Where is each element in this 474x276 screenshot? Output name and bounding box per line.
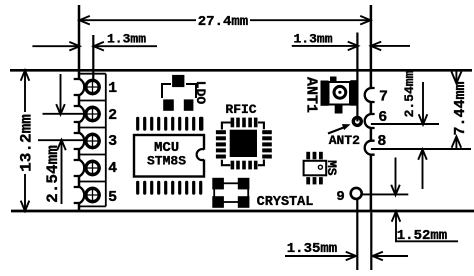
bottom extension line board edge bbox=[370, 213, 372, 271]
dimension 7.44mm reversed arrows bbox=[451, 70, 461, 149]
1.35mm arrows bbox=[285, 252, 408, 261]
pin6 extension line bbox=[371, 123, 439, 125]
crystal pad bottom-left bbox=[212, 196, 224, 208]
svg-text:ANT2: ANT2 bbox=[329, 133, 360, 148]
svg-text:2.54mm: 2.54mm bbox=[44, 145, 62, 203]
svg-text:ANT1: ANT1 bbox=[303, 77, 320, 113]
left 1.3mm extension line bbox=[92, 35, 94, 80]
ANT1 connector bottom pad bbox=[335, 105, 343, 114]
MS top pins bbox=[306, 152, 323, 160]
RFIC bottom pins bbox=[231, 161, 258, 170]
1.52mm down arrow bbox=[391, 158, 400, 196]
pin 1 hole bbox=[84, 79, 101, 96]
castellation pin 2 bbox=[74, 106, 85, 122]
MS bottom pins bbox=[306, 177, 323, 184]
castellation pin 6 bbox=[365, 114, 375, 128]
castellation pin 7 bbox=[365, 88, 375, 102]
svg-text:9: 9 bbox=[336, 189, 344, 205]
RFIC top pins bbox=[231, 118, 258, 128]
svg-text:7.44mm: 7.44mm bbox=[452, 81, 469, 135]
pin 2 hole bbox=[84, 106, 101, 123]
castellation pin 4 bbox=[74, 160, 85, 176]
svg-text:3: 3 bbox=[108, 133, 117, 150]
svg-text:1.3mm: 1.3mm bbox=[107, 32, 146, 47]
crystal pad top-left bbox=[212, 178, 224, 190]
pin 9 hole bbox=[351, 188, 362, 199]
svg-text:7: 7 bbox=[379, 89, 388, 106]
MCU bottom pin row bbox=[136, 181, 202, 195]
MCU top pin row bbox=[136, 117, 203, 131]
svg-text:4: 4 bbox=[108, 160, 117, 177]
svg-text:STM8S: STM8S bbox=[147, 154, 186, 169]
svg-text:1.35mm: 1.35mm bbox=[287, 241, 337, 257]
castellation pin 1 bbox=[74, 79, 85, 95]
ANT1 connector center dot bbox=[338, 91, 341, 94]
svg-text:1: 1 bbox=[108, 80, 117, 97]
svg-text:27.4mm: 27.4mm bbox=[198, 14, 248, 30]
1.52mm up arrow and leader bbox=[392, 211, 458, 241]
pin 3 hole bbox=[84, 133, 101, 150]
svg-text:MS: MS bbox=[324, 160, 339, 176]
right 2.54mm up arrow bbox=[418, 149, 427, 189]
dimension 27.4mm line bbox=[79, 16, 371, 25]
svg-text:8: 8 bbox=[377, 133, 386, 150]
crystal body outline bbox=[214, 183, 248, 202]
RFIC left pins bbox=[216, 130, 226, 158]
castellation pin 3 bbox=[74, 133, 85, 149]
right 1.3mm arrows bbox=[292, 42, 410, 51]
crystal pad bottom-right bbox=[238, 196, 250, 208]
MS pin1 dot bbox=[318, 165, 322, 169]
crystal pad top-right bbox=[238, 178, 250, 190]
LDO outline brackets bbox=[162, 84, 196, 98]
RFIC right pins bbox=[262, 130, 272, 158]
svg-text:CRYSTAL: CRYSTAL bbox=[257, 195, 314, 210]
pin9 extension line bbox=[362, 193, 408, 195]
ANT2 arrow bbox=[328, 124, 351, 133]
ANT1 connector left pad bbox=[321, 81, 329, 106]
ANT2 hole bbox=[353, 117, 361, 125]
pin 5 hole bbox=[84, 187, 101, 204]
board top edge bbox=[10, 69, 472, 72]
svg-text:LDO: LDO bbox=[193, 81, 208, 105]
svg-text:RFIC: RFIC bbox=[225, 102, 256, 117]
svg-text:2.54mm: 2.54mm bbox=[402, 70, 417, 117]
board left edge with 27.4mm extension bbox=[78, 5, 81, 211]
svg-text:5: 5 bbox=[108, 189, 117, 206]
castellation pin 5 bbox=[74, 187, 85, 203]
castellation pin 8 bbox=[365, 141, 375, 155]
svg-text:1.52mm: 1.52mm bbox=[397, 228, 447, 244]
pin header cell grid bbox=[80, 74, 106, 207]
right 1.3mm extension line into ANT2 bbox=[356, 33, 358, 122]
left 2.54mm down arrow bbox=[56, 74, 65, 115]
pin 4 hole bbox=[84, 160, 101, 177]
dimension 13.2mm line bbox=[21, 70, 30, 211]
MS body bbox=[304, 161, 327, 176]
ANT1 connector center circle bbox=[334, 86, 346, 98]
MCU body with notch bbox=[134, 135, 208, 177]
ANT1 connector top pad bbox=[330, 77, 337, 82]
ANT1 connector body outline bbox=[329, 82, 351, 105]
svg-text:13.2mm: 13.2mm bbox=[17, 114, 35, 172]
pin3 extension line bbox=[38, 139, 86, 141]
pin2 extension line bbox=[43, 113, 86, 115]
RFIC corner brackets bbox=[222, 123, 264, 166]
left 1.3mm arrows bbox=[32, 42, 157, 51]
board bottom edge bbox=[11, 210, 474, 213]
board right edge with 27.4mm extension bbox=[370, 5, 373, 211]
RFIC center pad bbox=[230, 130, 257, 157]
left 2.54mm up arrow bbox=[57, 140, 66, 204]
LDO pad left bbox=[163, 99, 174, 110]
ANT1 connector right pad bbox=[350, 80, 358, 106]
pin8 extension line bbox=[371, 148, 471, 150]
svg-text:2: 2 bbox=[108, 107, 117, 124]
bottom extension line pin9 column bbox=[356, 200, 358, 270]
svg-text:1.3mm: 1.3mm bbox=[293, 32, 332, 47]
right 2.54mm down arrow bbox=[419, 82, 428, 125]
LDO tab pad bbox=[172, 75, 184, 87]
LDO pad right bbox=[184, 99, 194, 110]
